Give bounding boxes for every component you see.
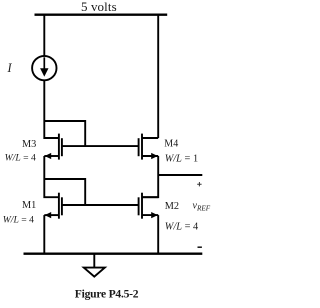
svg-text:Figure P4.5-2: Figure P4.5-2 bbox=[75, 287, 139, 300]
wire M4 source to M2 drain bbox=[142, 156, 158, 197]
wire M2 source to ground rail bbox=[157, 215, 159, 254]
svg-text:I: I bbox=[7, 61, 13, 75]
wire left stub from rail to current source bbox=[43, 14, 45, 57]
svg-text:M1: M1 bbox=[22, 200, 36, 211]
node VDD: 5 volts supply rail bbox=[35, 14, 168, 16]
wire M1 drain-to-gate feedback bbox=[44, 179, 85, 205]
node ground rail bbox=[24, 253, 203, 255]
wire gate bus M3-M4 bbox=[62, 145, 139, 147]
transistor M3 bbox=[44, 134, 62, 160]
ground bbox=[84, 253, 105, 277]
wire left branch: current source to M3 drain bbox=[44, 80, 59, 138]
svg-text:vREF: vREF bbox=[193, 200, 211, 212]
svg-text:W/L = 4: W/L = 4 bbox=[165, 222, 199, 233]
svg-text:5 volts: 5 volts bbox=[81, 0, 117, 14]
wire M3 source to M1 drain bbox=[44, 156, 59, 197]
label - (vREF negative) bbox=[198, 246, 202, 248]
current source I bbox=[32, 56, 56, 80]
svg-text:M4: M4 bbox=[164, 138, 178, 149]
transistor M1 bbox=[44, 193, 62, 219]
svg-text:W/L = 1: W/L = 1 bbox=[165, 154, 198, 165]
wire gate bus M1-M2 bbox=[62, 204, 139, 206]
wire M1 source to ground rail bbox=[43, 215, 45, 254]
label + (vREF positive) bbox=[197, 182, 201, 186]
transistor M4 bbox=[139, 134, 159, 160]
svg-text:W/L = 4: W/L = 4 bbox=[3, 214, 34, 225]
wire M3 drain-to-gate feedback bbox=[44, 121, 85, 146]
wire vREF output tap bbox=[158, 174, 202, 176]
transistor M2 bbox=[139, 193, 159, 219]
svg-text:M2: M2 bbox=[165, 201, 179, 212]
svg-text:W/L = 4: W/L = 4 bbox=[5, 152, 36, 163]
wire right branch: rail to M4 drain bbox=[157, 14, 159, 139]
svg-text:M3: M3 bbox=[22, 139, 36, 150]
